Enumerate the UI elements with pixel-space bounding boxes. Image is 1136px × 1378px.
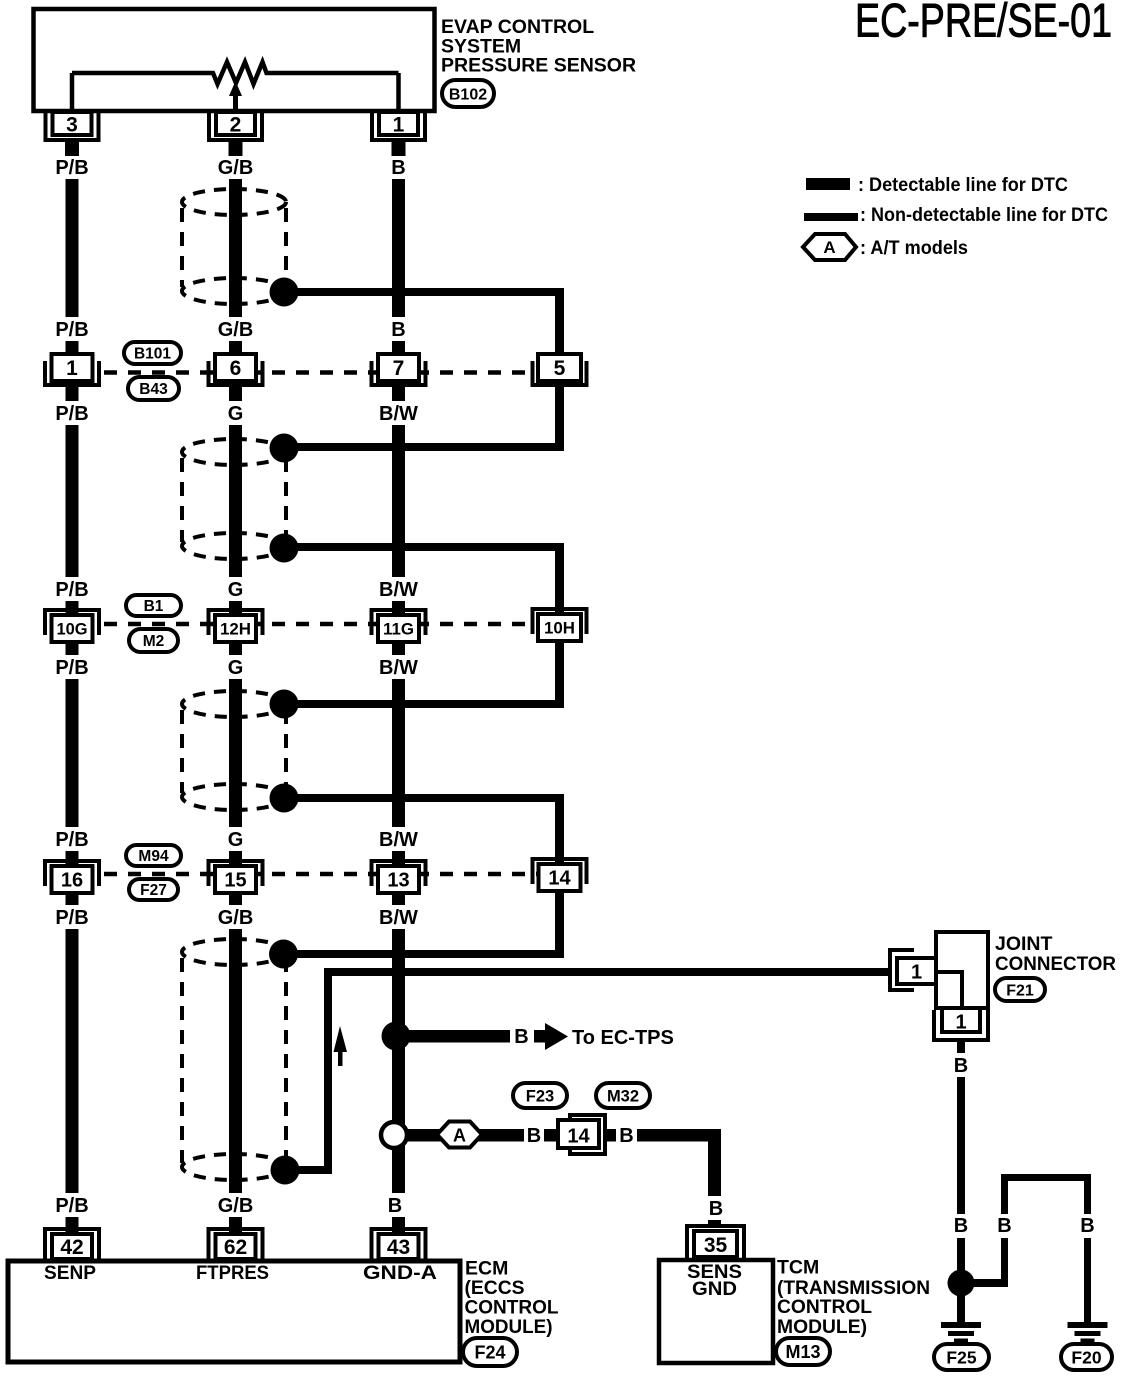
svg-text:B: B [388,1195,402,1217]
svg-text:P/B: P/B [55,829,88,851]
wire label B/W [376,827,422,851]
label B (left of connector 14) [524,1123,544,1147]
wire shield1 dot to connector 5 [284,288,564,296]
svg-text:12H: 12H [220,620,251,638]
TCM pin 35 [687,1226,744,1259]
svg-text:1: 1 [393,114,405,137]
svg-text:5: 5 [554,357,566,380]
connector pin 14 (M94/F27) [533,859,587,884]
connector pin 10G (B1/M2) [45,610,99,635]
svg-text:B/W: B/W [379,907,418,929]
ground symbol F20 [1068,1322,1108,1328]
sensor pin 1 [372,112,425,140]
wire label B/W [376,655,422,679]
svg-text:1: 1 [911,962,922,984]
svg-text:To EC-TPS: To EC-TPS [572,1027,674,1049]
wire label P/B [52,1193,92,1217]
joint connector pin 1 (bottom) [934,1010,988,1040]
svg-text:14: 14 [567,1126,590,1148]
svg-text:62: 62 [224,1236,247,1259]
sensor pin 3 [46,112,99,140]
shield cylinder 4 around G/B wire [182,939,286,1180]
oval F27 [129,879,178,900]
oval F21 [995,978,1045,1001]
svg-text:M94: M94 [138,848,169,865]
potentiometer wiper arrow [233,94,238,111]
wire label P/B [52,401,92,425]
wire connector 10H down to shield3 top dot [555,640,564,706]
svg-text:10H: 10H [544,619,575,637]
wire label P/B [52,577,92,601]
svg-text:11G: 11G [383,620,414,638]
connector 14 (F23/M32) [570,1115,605,1154]
svg-text:2: 2 [230,114,242,137]
wire label B/W [376,577,422,601]
wire label G/B [214,905,257,929]
svg-text:G: G [228,579,244,601]
svg-text:P/B: P/B [55,907,88,929]
svg-text:P/B: P/B [55,1195,88,1217]
ground junction dot [948,1270,975,1297]
wire shield4 bottom dot to joint connector F21 [290,1166,332,1174]
svg-text:: Non-detectable line for DTC: : Non-detectable line for DTC [860,205,1108,226]
ground symbol F25 [941,1322,981,1328]
wire open-circle to TCM elbow [407,1129,714,1142]
svg-text:B101: B101 [134,346,171,363]
sensor pin 2 [209,112,262,140]
svg-text:F20: F20 [1071,1347,1101,1367]
oval M13 [776,1338,830,1365]
svg-text:F24: F24 [474,1342,505,1362]
wire shield2 bottom dot to connector 10H [284,543,564,551]
wire joint connector F21 to ground F25 [957,1040,965,1285]
dashed line connector row B101/B43 [104,370,537,375]
ECM pin 42 [45,1229,99,1259]
svg-text:35: 35 [704,1234,728,1257]
junction dot shield4 bottom [271,1156,300,1185]
svg-text:6: 6 [230,357,242,380]
svg-text:GND: GND [692,1279,737,1300]
wire label G [225,655,247,679]
oval F25 [934,1344,989,1370]
svg-text:15: 15 [224,870,246,892]
svg-text:G/B: G/B [218,907,254,929]
svg-text:42: 42 [60,1236,83,1259]
oval F23 [513,1083,567,1108]
wire label P/B [52,655,92,679]
EVAP control system pressure sensor box [34,9,435,111]
svg-text:B1: B1 [144,598,164,615]
junction dot shield1 bottom [270,278,299,307]
svg-text:G/B: G/B [218,1195,254,1217]
svg-text:M2: M2 [143,633,165,650]
svg-text:B: B [997,1215,1011,1237]
junction dot to EC-TPS [382,1022,411,1051]
junction dot shield4 top [269,940,298,969]
svg-text:B: B [391,157,405,179]
wire label G/B [214,1193,257,1217]
label B (above ground dot) [948,1214,974,1238]
connector pin 16 (M94/F27) [45,861,99,886]
legend thin line [804,213,858,221]
svg-text:F23: F23 [526,1087,554,1105]
connector pin 12H (B1/M2) [209,610,263,635]
oval B102 [442,80,494,107]
oval B101 [124,342,181,364]
svg-text:G: G [228,403,244,425]
wire label G [225,827,247,851]
potentiometer resistor [72,62,399,84]
svg-text:A: A [453,1126,466,1146]
wire B column (sensor pin 1 to ECM pin 43) [392,140,405,1234]
svg-text:MODULE): MODULE) [777,1316,867,1338]
wire label B [385,1193,406,1217]
svg-text:1: 1 [66,357,78,380]
shield cylinder 1 around G/B wire [182,189,286,304]
open circle junction (A/T models) [381,1122,407,1148]
svg-text:G: G [228,829,244,851]
svg-text:: Detectable line for DTC: : Detectable line for DTC [858,175,1068,196]
connector pin 6 (B101/B43) [209,361,263,385]
svg-text:M32: M32 [607,1087,639,1105]
svg-text:PRESSURE SENSOR: PRESSURE SENSOR [441,55,636,77]
oval F20 [1061,1344,1112,1370]
shield cylinder 3 around G wire [182,691,286,810]
svg-text:B: B [619,1125,633,1147]
oval F24 [463,1338,517,1366]
label B (below joint connector) [948,1053,974,1077]
wire label P/B [52,317,92,341]
svg-text:GND-A: GND-A [363,1263,437,1284]
svg-text:P/B: P/B [55,319,88,341]
label B (right ground branch) [1074,1214,1101,1238]
svg-text:EC-PRE/SE-01: EC-PRE/SE-01 [855,0,1112,47]
junction dot shield2 top [270,434,299,463]
svg-text:G: G [228,657,244,679]
svg-text:B: B [527,1125,541,1147]
svg-text:SENP: SENP [44,1263,96,1284]
wire label B [388,317,409,341]
svg-text:F25: F25 [946,1347,976,1367]
connector pin 7 (B101/B43) [372,361,426,385]
svg-text:3: 3 [66,114,78,137]
wire dot to F25 ground [957,1290,965,1324]
svg-text:F21: F21 [1006,982,1034,999]
svg-text:MODULE): MODULE) [465,1316,553,1338]
svg-text:B: B [709,1198,723,1220]
ECM pin 43 [372,1229,426,1259]
svg-text:B: B [1080,1215,1094,1237]
svg-text:G/B: G/B [218,319,254,341]
TCM box [659,1260,773,1363]
ECM box [8,1261,460,1362]
svg-text:B43: B43 [139,381,168,398]
dashed line connector row B1/M2 [104,622,537,627]
svg-text:B/W: B/W [379,829,418,851]
oval B1 [126,595,181,616]
svg-text:: A/T models: : A/T models [860,238,968,259]
wire connector 14 down to shield4 top dot [555,889,564,956]
wire shield3 bottom dot to connector 14 [284,794,564,802]
joint connector body [936,932,988,1008]
svg-text:P/B: P/B [55,657,88,679]
oval M32 [596,1083,650,1108]
label B (right of connector 14) [616,1123,637,1147]
wire label P/B [52,905,92,929]
svg-text:B: B [954,1055,968,1077]
svg-text:FTPRES: FTPRES [196,1263,269,1284]
svg-text:16: 16 [61,870,83,892]
junction dot shield3 top [270,690,299,719]
hexagon A (A/T models) [437,1122,482,1148]
label B (middle ground branch) [991,1214,1018,1238]
svg-text:G/B: G/B [218,157,254,179]
svg-text:B102: B102 [449,86,487,103]
oval M94 [126,845,181,866]
junction dot shield3 bottom [270,784,299,813]
connector pin 5 (B101/B43) [533,361,587,385]
svg-text:M13: M13 [785,1342,820,1362]
svg-text:P/B: P/B [55,403,88,425]
ECM pin 62 [209,1229,263,1259]
wire connector 5 down to shield2 top dot [555,384,564,450]
svg-text:1: 1 [955,1012,966,1034]
wire label B [388,155,409,179]
wire dot to F20 ground [961,1279,1006,1287]
direction arrow (up) [334,1026,348,1066]
svg-text:JOINT: JOINT [995,933,1053,955]
legend thick line [806,178,850,190]
wire to EC-TPS [408,1030,510,1043]
svg-text:13: 13 [387,870,409,892]
wire label B/W [376,905,422,929]
dashed line connector row M94/F27 [104,872,537,877]
svg-text:TCM: TCM [777,1257,819,1279]
legend hexagon A [803,234,856,260]
connector pin 13 (M94/F27) [372,861,426,886]
svg-text:A: A [823,238,835,257]
svg-text:B: B [954,1215,968,1237]
svg-text:CONTROL: CONTROL [777,1296,872,1318]
oval B43 [128,377,179,400]
svg-text:B/W: B/W [379,403,418,425]
connector pin 11G (B1/M2) [372,610,426,635]
connector pin 1 (B101/B43) [45,361,99,385]
wire label G [225,577,247,601]
svg-text:10G: 10G [57,620,88,638]
svg-text:7: 7 [393,357,405,380]
arrow To EC-TPS [534,1023,568,1050]
shield cylinder 2 around G wire [182,439,286,559]
wire G/B column (sensor pin 2 to ECM pin 62) [229,140,242,1234]
svg-text:14: 14 [548,868,571,890]
wire label G/B [214,317,257,341]
oval M2 [129,629,178,652]
connector pin 15 (M94/F27) [209,861,263,886]
wire label G [225,401,247,425]
svg-text:CONNECTOR: CONNECTOR [995,953,1116,975]
svg-text:B/W: B/W [379,579,418,601]
wire label P/B [52,155,92,179]
svg-text:B: B [514,1026,528,1048]
wire label G/B [214,155,257,179]
wire label B/W [376,401,422,425]
connector pin 10H (B1/M2) [533,609,587,634]
joint connector pin 1 (left) [890,950,914,990]
wire P/B column (sensor pin 3 to ECM pin 42) [66,140,79,1234]
wire label P/B [52,827,92,851]
svg-text:F27: F27 [140,882,167,899]
svg-text:B: B [391,319,405,341]
svg-text:43: 43 [387,1236,410,1259]
junction dot shield2 bottom [270,534,299,563]
svg-text:P/B: P/B [55,157,88,179]
svg-text:P/B: P/B [55,579,88,601]
svg-text:B/W: B/W [379,657,418,679]
label B (above TCM pin 35) [702,1196,729,1220]
